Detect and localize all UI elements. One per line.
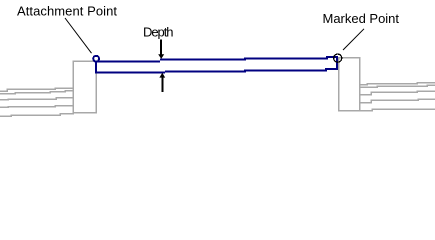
cable right end vertical connector xyxy=(336,57,338,69)
attachment point leader line xyxy=(65,18,92,53)
left wire 4 xyxy=(0,106,73,108)
svg-text:Depth: Depth xyxy=(143,25,174,40)
left wire 2 xyxy=(0,91,73,94)
left wire 3 xyxy=(0,98,73,100)
right pole structure xyxy=(339,58,435,111)
cable span (navy) xyxy=(95,57,338,73)
right wire 1 xyxy=(360,83,435,85)
cable top line left segment xyxy=(96,61,160,63)
marked point circle (black) xyxy=(334,54,342,62)
left pole structure xyxy=(0,61,96,116)
marked point leader line xyxy=(343,29,364,50)
left pole rectangle xyxy=(73,61,96,113)
svg-text:Attachment Point: Attachment Point xyxy=(17,3,117,18)
cable top line right segment xyxy=(160,57,338,60)
attachment point circle (navy) xyxy=(93,56,99,62)
right pole rectangle xyxy=(339,58,360,111)
depth dimension up arrow xyxy=(159,73,165,92)
cable left end vertical connector xyxy=(95,62,97,73)
svg-text:Marked Point: Marked Point xyxy=(323,11,400,26)
right wire 2 xyxy=(360,85,435,87)
left wire 5 xyxy=(0,114,74,117)
right wire 5 xyxy=(360,109,435,111)
cable bottom line right segment xyxy=(165,69,338,72)
right wire 3 xyxy=(360,91,435,95)
left wire 1 xyxy=(0,88,73,91)
cable bottom line left segment xyxy=(95,72,165,74)
depth dimension down arrow xyxy=(158,39,164,59)
right wire 4 xyxy=(360,99,435,103)
